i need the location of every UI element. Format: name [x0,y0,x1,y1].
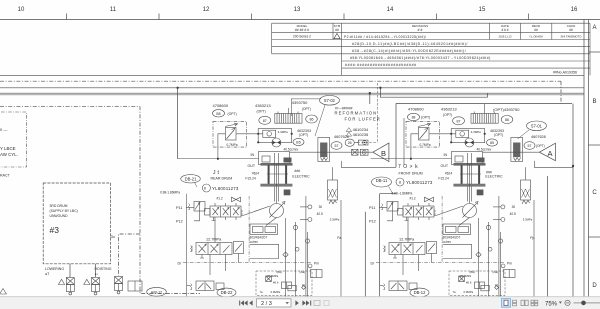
svg-text:DB-22: DB-22 [221,290,234,295]
wire 57-02 leader [315,105,325,136]
junction node front box wire [572,165,574,167]
svg-text:P11: P11 [369,206,375,210]
revision table header text [295,24,576,32]
svg-text:803/434/207: 803/434/207 [443,236,461,240]
svg-text:AW CYL.: AW CYL. [0,152,18,157]
svg-text:4708600: 4708600 [213,103,229,108]
rear luffing valve [318,137,330,161]
front outlet wire [483,151,540,153]
svg-text:IN: IN [251,153,255,157]
revision warning triangle symbol [334,34,340,39]
svg-text:REFORMATION: REFORMATION [335,111,378,116]
zone divider tick A/B [589,51,600,53]
svg-text:12.7MPa: 12.7MPa [399,238,415,242]
svg-text:#624: #624 [445,172,452,176]
valve B8 oval rear [213,110,225,117]
front circuit box left edge [379,194,381,297]
svg-text:FRONT DRUM: FRONT DRUM [399,172,423,176]
svg-text:D: D [592,283,597,289]
svg-text:FOR LUFFER: FOR LUFFER [345,117,381,122]
svg-text:UNWOUND: UNWOUND [50,214,69,218]
svg-text:P11: P11 [176,206,182,210]
svg-text:REAR DRUM: REAR DRUM [211,177,233,181]
svg-text:0.7MPa: 0.7MPa [420,143,431,147]
wire drop to front box [380,88,487,97]
svg-text:87: 87 [263,119,267,123]
svg-text:P2:#I11## / #14:4615294→YL0001: P2:#I11## / #14:4615294→YL00013225(#I#)/ [344,35,426,39]
svg-text:OUT: OUT [441,164,449,168]
svg-text:A: A [592,25,596,31]
front drum circuit [371,121,534,297]
zoom dropdown caret [559,302,562,304]
svg-text:5.3MPa: 5.3MPa [523,217,533,221]
svg-text:85: 85 [490,141,494,145]
svg-text:(OPT): (OPT) [536,144,545,148]
tool icon snapshot [314,301,320,306]
bus wire mid [0,87,584,89]
solenoid block rear [275,108,302,123]
svg-text:## ## # #: ## ## # # [295,28,309,32]
svg-text:YL80011273: YL80011273 [212,186,239,191]
svg-text:cc/rev: cc/rev [250,240,259,244]
ruler tick 11/12 [158,14,160,20]
svg-text:#5.6: #5.6 [466,281,472,285]
svg-text:4.0MPa: 4.0MPa [471,130,481,134]
last page button [302,300,311,305]
layout icon two continuous [531,300,538,306]
svg-text:(OPT): (OPT) [421,116,430,120]
svg-text:#38→#28(C-14)#I(##I#)/#55:YL00: #38→#28(C-14)#I(##I#)/#55:YL00D0822E####… [352,49,466,53]
svg-text:200 Series 2: 200 Series 2 [293,35,311,39]
svg-text:40.5cc/rev: 40.5cc/rev [284,148,299,152]
layout icon two pages [521,300,528,305]
svg-text:40.5cc/rev: 40.5cc/rev [477,148,492,152]
svg-text:Y LBCE: Y LBCE [0,146,16,151]
svg-text:(Aa): (Aa) [493,270,499,274]
zone letters A B C D [592,25,597,289]
valve 57 oval front [524,142,535,150]
svg-text:YL80011273: YL80011273 [406,180,433,185]
page number input box [257,299,292,307]
valve B5 oval rear [293,138,304,145]
svg-text:##: ## [335,28,339,32]
valve 86 oval front [501,116,513,124]
svg-text:P12: P12 [176,220,183,224]
svg-text:B: B [381,149,386,158]
frame right border inner line [583,20,585,297]
svg-text:###: ### [294,169,300,173]
ruler top border line [0,19,600,21]
svg-text:A00-12: A00-12 [151,290,163,294]
front circuit inner edge [403,118,405,165]
ruler tick 12/13 [251,14,253,20]
revision table row 1 [293,35,582,40]
bus wire lower b [0,94,584,96]
reformation dashed box [357,83,377,142]
svg-text:Dc: Dc [111,235,116,239]
svg-text:B5: B5 [296,141,300,145]
warning triangle 4610235 [346,132,351,136]
left dashed option box (cut off) [0,112,26,167]
svg-text:7a: 7a [453,290,457,294]
svg-text:Pp: Pp [530,236,534,240]
svg-text:75%: 75% [545,301,558,307]
front circuit box top stub [380,193,396,195]
svg-text:57: 57 [528,144,532,148]
svg-text:OUT: OUT [248,164,256,168]
svg-text:####:#######################: ####:####################### [345,63,417,67]
valve 87 oval front [453,117,465,125]
wire 57-01 leader [518,130,530,139]
chain line boundary drop [560,81,562,103]
svg-text:87: 87 [457,119,461,123]
svg-text:(OPT): (OPT) [257,110,266,114]
rear option box corner [291,99,321,116]
ruler zone numbers [18,7,578,13]
svg-text:26: 26 [348,141,352,145]
svg-text:6.9MPa: 6.9MPa [271,290,281,294]
svg-text:0.7MPa: 0.7MPa [227,143,238,147]
svg-text:k0.: k0. [495,283,499,287]
layout icon single page selected [502,299,511,308]
svg-text:86: 86 [505,118,509,122]
svg-text:7a: 7a [260,290,264,294]
svg-text:ELECTRIC: ELECTRIC [292,174,310,178]
svg-text:12: 12 [203,7,210,13]
svg-text:0.98~1.86MPa: 0.98~1.86MPa [392,191,413,195]
prev page button [249,300,252,305]
3rd drum box [43,183,110,264]
svg-text:8: 8 [204,187,206,191]
svg-text:11: 11 [110,7,117,13]
svg-text:4.0MPa: 4.0MPa [278,130,288,134]
svg-text:57-01: 57-01 [531,124,542,129]
svg-text:(OPT)4393750: (OPT)4393750 [493,107,520,112]
node 57-01 oval [527,121,547,131]
svg-text:B8: B8 [216,112,220,116]
frame right border outer line [588,20,590,297]
svg-text:(OPT): (OPT) [443,113,452,117]
3rd drum hoisting wire [95,264,97,277]
svg-text:(SUPPLY BY LBC): (SUPPLY BY LBC) [50,209,78,213]
zone divider tick C/D [589,236,600,238]
valve 86 oval rear [306,115,318,123]
front circuit feed wire upper [369,93,371,104]
svg-text:(OPT): (OPT) [302,107,311,111]
svg-text:6.9MPa: 6.9MPa [464,290,474,294]
svg-text:2 / 3: 2 / 3 [261,301,272,307]
svg-text:3RD DRUM: 3RD DRUM [50,204,68,208]
wire inner right vertical [547,176,549,297]
svg-text:#5.6: #5.6 [273,281,279,285]
ruler tick 14/15 [436,14,438,20]
junction node front feed top [379,87,381,89]
svg-text:DB-21: DB-21 [185,176,198,181]
node A00-12 oval [147,287,167,296]
svg-text:#3: #3 [50,225,60,235]
chain line boundary horizontal [0,80,561,82]
svg-text:(OPT): (OPT) [494,133,503,137]
svg-text:57: 57 [335,144,339,148]
svg-text:#1.2: #1.2 [217,197,223,201]
svg-text:#624: #624 [252,172,259,176]
svg-text:0.98-1.86MPa: 0.98-1.86MPa [160,190,180,194]
svg-text:I=22.24: I=22.24 [245,177,256,181]
svg-text:4363213: 4363213 [441,107,457,112]
ruler tick 13/14 [343,14,345,20]
warning triangle lowering [58,279,64,284]
svg-text:SHI.TAKEMOTO: SHI.TAKEMOTO [561,35,583,39]
valve 57 oval rear [331,142,342,150]
svg-text:26.0MPa: 26.0MPa [267,274,279,278]
svg-text:86: 86 [310,118,314,122]
svg-text:(OPT): (OPT) [299,133,308,137]
front circuit outer box [396,104,572,168]
svg-text:4607628: 4607628 [334,135,349,139]
pilot valve third [115,277,123,294]
junction node rear drop [176,87,178,89]
node DB-11 leader [389,187,394,194]
valve 85 oval front [487,139,498,146]
rear drain wire to front box [341,161,396,167]
svg-text:LOWERING: LOWERING [45,267,64,271]
svg-text:B: B [592,99,596,105]
svg-text:10: 10 [18,7,25,13]
node DB-21 oval [181,175,201,183]
shuttle comp a [352,149,358,155]
svg-text:#28(D-10,D-11)##(LBC##)/#38(D-: #28(D-10,D-11)##(LBC##)/#38(D-11):464520… [352,42,468,46]
layout icon continuous [513,300,517,306]
svg-text:2019.11.13: 2019.11.13 [499,35,512,39]
3rd drum lowering wire [69,264,71,277]
front drain wire [534,161,573,167]
svg-text:##: ## [569,28,573,32]
svg-text:4363213: 4363213 [255,103,271,108]
revision table grid [272,23,590,75]
svg-text:40.5: 40.5 [510,212,516,216]
svg-text:YL.OKADA: YL.OKADA [529,35,543,39]
svg-text:4393750: 4393750 [292,100,308,105]
next page button [295,300,298,305]
svg-text:A: A [547,149,552,158]
front box right vertical [572,104,574,297]
pilot valve lowering [66,278,74,295]
svg-text:ELECTRIC: ELECTRIC [485,174,503,178]
svg-text:4610235: 4610235 [353,132,369,137]
bus wire lower a [0,92,584,94]
svg-text:0 —: 0 — [0,127,7,132]
svg-text:7O>k: 7O>k [398,164,420,170]
svg-text:RACT: RACT [0,174,11,178]
node 57-02 oval [320,96,340,106]
warning triangle hoisting [84,279,90,284]
node A triangle [539,143,555,161]
svg-text:(OPT): (OPT) [228,112,237,116]
first page button [239,300,247,305]
svg-text:P12: P12 [369,220,376,224]
ruler tick 10/11 [66,14,68,20]
tool icon clipboard [324,301,329,306]
node DB-11 oval [372,177,392,187]
svg-text:Pm: Pm [507,262,512,266]
left machine boundary chain line [0,107,200,294]
svg-text:8: 8 [399,181,401,185]
zoom slider thumb [581,301,586,306]
svg-text:#1.2: #1.2 [410,197,416,201]
solenoid block front [471,104,498,124]
front luffing valve [511,137,523,161]
svg-text:(Aa): (Aa) [300,270,306,274]
svg-text:88: 88 [412,116,416,120]
horizontal bus wire top [0,75,584,296]
svg-text:30: 30 [512,205,516,209]
svg-text:4708600: 4708600 [408,107,424,112]
svg-text:57-02: 57-02 [324,98,335,103]
svg-text:HOISTING: HOISTING [95,267,112,271]
shuttle comp b [360,149,368,155]
rear part circle 8 [202,184,210,192]
valve 88 oval front [408,113,420,120]
svg-text:13: 13 [294,7,301,13]
svg-text:Jt: Jt [213,170,221,176]
svg-text:803/434/207: 803/434/207 [250,236,268,240]
svg-text:DB-11: DB-11 [376,178,388,183]
front part circle 8 [396,178,404,186]
svg-text:12.7MPa: 12.7MPa [206,238,222,242]
front circuit feed wire lower [364,212,366,297]
warning triangle 4610234 [346,128,351,132]
zone divider tick B/C [589,144,600,146]
warning triangle left edge [0,289,6,295]
svg-text:##: ## [534,28,538,32]
pilot valve hoisting [92,278,100,295]
zoom out icon [565,300,570,305]
viewer toolbar background [0,297,600,309]
rear outlet wire [290,151,373,153]
svg-text:#58:YL00081646→4694561(##I#)/#: #58:YL00081646→4694561(##I#)/#78:YL00003… [350,56,491,60]
zoom slider track [574,302,600,304]
rear circuit box left edge [186,194,188,297]
svg-text:●↓: ●↓ [95,272,99,276]
junction node front drop [369,92,371,94]
svg-text:16: 16 [571,7,578,13]
svg-text:26.0MPa: 26.0MPa [460,274,472,278]
node B triangle [373,143,389,162]
svg-text:I=22.24: I=22.24 [438,177,449,181]
svg-text:##No.A019356: ##No.A019356 [553,70,577,74]
svg-text:# #: # # [418,28,423,32]
rear circuit feed wire [177,88,179,159]
valve 87 oval rear [259,116,271,124]
svg-text:cc/rev: cc/rev [443,240,452,244]
left bottom component [128,281,142,291]
svg-text:30: 30 [319,205,323,209]
ruler tick 15/16 [528,14,530,20]
svg-text:# # #: # # # [501,28,508,32]
svg-text:C: C [592,190,597,196]
svg-text:Pm: Pm [314,262,319,266]
svg-text:5.3MPa: 5.3MPa [330,217,340,221]
svg-text:4607628: 4607628 [531,135,546,139]
svg-text:DB-12: DB-12 [414,290,427,295]
check valve kit upper [354,140,368,145]
revision table rows 2-4 text [345,42,577,75]
rear drum circuit [178,121,341,297]
svg-text:IN: IN [444,153,448,157]
svg-text:Pa: Pa [337,236,341,240]
svg-text:40.5: 40.5 [317,212,323,216]
svg-text:k0.: k0. [302,283,306,287]
svg-text:15: 15 [479,7,486,13]
node 26 oval [345,139,354,146]
svg-text:14: 14 [387,7,394,13]
